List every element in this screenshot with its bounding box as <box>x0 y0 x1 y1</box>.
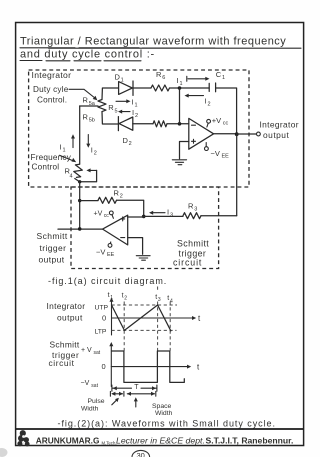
resistor R6 <box>151 85 169 91</box>
wire R6 to C1 <box>170 87 210 89</box>
space width pointer arrow <box>135 400 137 407</box>
svg-text:4: 4 <box>170 298 173 304</box>
svg-text:trigger: trigger <box>40 243 67 253</box>
svg-text:t: t <box>155 294 157 301</box>
svg-text:circuit: circuit <box>49 358 75 368</box>
wire + node to R3 <box>144 215 183 217</box>
title line2 underline <box>20 60 141 62</box>
schmitt trigger dashed box <box>71 187 219 269</box>
period T measure arrows <box>112 385 157 391</box>
frequency control pointer arrow <box>60 155 74 161</box>
wire + input <box>128 216 144 218</box>
t3 dashed vertical <box>157 287 159 351</box>
ground (integrator + input) <box>172 160 186 165</box>
wire resistor to inverting input <box>167 123 189 125</box>
wire main bus (wiper to R4) <box>79 106 81 164</box>
svg-text:1: 1 <box>180 81 183 87</box>
svg-text:cc: cc <box>223 121 229 127</box>
svg-text:output: output <box>263 130 289 140</box>
svg-text:2: 2 <box>124 296 127 302</box>
svg-text:Schmitt: Schmitt <box>37 231 68 241</box>
svg-text:3: 3 <box>170 213 173 219</box>
svg-text:I: I <box>60 142 62 151</box>
svg-text:Triangular / Rectangular wavef: Triangular / Rectangular waveform with f… <box>20 36 286 48</box>
wire R3 to bus <box>201 215 237 217</box>
svg-text:3: 3 <box>194 207 197 213</box>
svg-text:−V: −V <box>211 149 220 158</box>
resistor R2 <box>98 197 116 203</box>
svg-text:2: 2 <box>94 150 97 156</box>
label I2 down-bus arrow <box>87 135 89 145</box>
waveform1 y-axis <box>111 301 113 336</box>
svg-text:Integrator: Integrator <box>32 70 72 80</box>
svg-text:ARUNKUMAR.G: ARUNKUMAR.G <box>36 436 100 446</box>
wire node link vertical <box>179 88 181 124</box>
-VEE terminal U2 <box>109 242 112 244</box>
svg-text:S.T.J.I.T, Ranebennur.: S.T.J.I.T, Ranebennur. <box>206 436 294 446</box>
svg-text:UTP: UTP <box>95 304 109 311</box>
svg-text:D: D <box>115 72 121 81</box>
svg-text:and duty cycle control :-: and duty cycle control :- <box>20 49 155 61</box>
capacitor C1 <box>209 83 215 92</box>
wire D2 to resistor <box>133 123 153 125</box>
wire R2 to + node <box>117 200 144 216</box>
wire main bus down to schmitt output line <box>79 182 81 229</box>
waveform2 y-axis <box>110 345 112 387</box>
space width measure <box>127 391 156 396</box>
integrator output terminal circle <box>257 132 261 136</box>
wire D1 to R6 <box>133 87 151 89</box>
square waveform trace <box>112 351 185 382</box>
svg-text:Schmitt: Schmitt <box>177 238 209 248</box>
svg-text:I: I <box>205 96 207 105</box>
svg-text:−V: −V <box>81 380 90 387</box>
svg-text:-fig.1(a) circuit diagram.: -fig.1(a) circuit diagram. <box>48 276 167 286</box>
svg-text:0: 0 <box>102 362 106 371</box>
svg-text:Width: Width <box>81 406 99 413</box>
duty cycle pointer arrow to R5 wiper <box>69 89 96 98</box>
svg-text:t: t <box>167 295 169 302</box>
svg-text:Pulse: Pulse <box>88 398 105 405</box>
waveform1 t-axis <box>112 317 194 319</box>
svg-text:M.Tech,: M.Tech, <box>102 440 117 445</box>
wire - input to ground <box>128 238 143 255</box>
wire to R2 <box>80 200 98 202</box>
triangle waveform trace <box>112 305 171 331</box>
label I1 down-bus arrow <box>72 138 74 148</box>
svg-text:6: 6 <box>162 75 165 81</box>
node: junction dot at inverting input column <box>178 86 182 90</box>
wire to integrator output terminal <box>237 133 257 135</box>
LTP dashed level <box>112 329 177 331</box>
svg-text:LTP: LTP <box>95 328 107 335</box>
svg-text:sat: sat <box>91 383 98 389</box>
wire output bus down <box>236 134 238 215</box>
resistor (unlabelled, D2 path) <box>153 121 167 127</box>
page number 30 <box>132 450 150 457</box>
svg-text:D: D <box>123 136 129 145</box>
svg-text:+ V: + V <box>81 347 92 354</box>
UTP dashed level <box>112 304 178 306</box>
wire R5 wiper tap <box>80 105 98 107</box>
title line1 underline <box>20 47 301 49</box>
node: dot below R4 <box>78 180 81 183</box>
svg-text:1: 1 <box>110 295 113 301</box>
ground (schmitt - input) <box>136 256 150 261</box>
svg-text:T: T <box>134 384 139 391</box>
svg-text:2: 2 <box>208 101 211 107</box>
potentiometer R4 <box>73 163 84 178</box>
node: dot schmitt output/bus <box>78 227 82 231</box>
svg-text:R: R <box>156 70 162 79</box>
svg-text:5: 5 <box>115 108 118 114</box>
svg-text:C: C <box>216 70 222 79</box>
svg-text:3: 3 <box>158 297 161 303</box>
svg-text:Control.: Control. <box>37 95 67 104</box>
svg-text:I: I <box>91 145 93 154</box>
diode D2 <box>117 117 119 131</box>
op-amp U1 (integrator) <box>189 118 214 149</box>
+Vcc terminal U1 <box>207 123 208 127</box>
svg-text:t: t <box>122 292 124 299</box>
-VEE terminal U1 <box>205 143 207 147</box>
wire pot bottom to D2 <box>102 112 118 124</box>
svg-text:R: R <box>188 202 194 211</box>
svg-text:R: R <box>83 96 89 105</box>
svg-text:R: R <box>114 188 120 197</box>
wire schmitt output <box>58 228 103 230</box>
svg-text:I: I <box>177 76 179 85</box>
svg-text:2: 2 <box>135 113 138 119</box>
label I1 with arrow (below D1) <box>116 100 127 102</box>
svg-text:output: output <box>39 254 65 264</box>
node: output junction dot <box>235 132 239 136</box>
svg-text:Schmitt: Schmitt <box>50 340 80 350</box>
node: dot R2 tap <box>78 199 81 202</box>
corner smudge <box>0 448 8 457</box>
label I2 with arrow (above D2) <box>122 111 131 113</box>
svg-text:sat: sat <box>94 350 101 356</box>
t4 dashed vertical <box>169 302 171 351</box>
svg-text:−V: −V <box>96 247 105 256</box>
wire pot top riser to D1 <box>102 88 118 100</box>
svg-text:Duty cyle: Duty cyle <box>33 85 69 94</box>
wire C1 to output bus <box>216 88 237 134</box>
footer logo <box>17 430 29 446</box>
svg-text:5b: 5b <box>89 118 95 124</box>
svg-text:output: output <box>57 313 83 323</box>
svg-text:0: 0 <box>102 313 106 322</box>
diode D1 <box>119 82 133 95</box>
t2 dashed vertical <box>123 302 125 351</box>
waveform2 t-axis <box>111 366 188 368</box>
svg-text:cc: cc <box>104 213 110 219</box>
svg-text:+V: +V <box>212 116 221 125</box>
svg-text:EE: EE <box>222 154 230 160</box>
svg-text:Integrator: Integrator <box>47 301 86 311</box>
svg-text:1: 1 <box>135 103 138 109</box>
svg-text:30: 30 <box>137 451 145 457</box>
svg-text:4: 4 <box>70 173 73 179</box>
resistor R3 <box>183 213 201 219</box>
label I2 with arrow (below top wire) <box>189 95 204 97</box>
svg-text:t: t <box>108 292 110 299</box>
svg-text:Width: Width <box>155 410 173 417</box>
svg-text:Lecturer in E&CE dept.: Lecturer in E&CE dept. <box>116 436 205 446</box>
svg-text:EE: EE <box>107 252 115 258</box>
integrator dashed box <box>29 70 249 187</box>
svg-text:Space: Space <box>152 403 171 410</box>
svg-text:2: 2 <box>129 141 132 147</box>
svg-text:-fig.(2)(a): Waveforms with Sm: -fig.(2)(a): Waveforms with Small duty c… <box>58 418 276 428</box>
label I3 with arrow <box>153 212 166 214</box>
svg-text:I: I <box>167 208 169 217</box>
op-amp U2 (schmitt, mirrored) <box>103 215 128 245</box>
svg-text:1: 1 <box>121 78 124 84</box>
svg-text:R: R <box>83 112 89 121</box>
+Vcc terminal U2 <box>109 211 113 215</box>
svg-text:circuit: circuit <box>173 258 202 268</box>
node: schmitt + input junction <box>142 215 146 219</box>
node: junction dot inverting input <box>178 122 182 126</box>
wire noninverting input to ground <box>180 142 189 159</box>
pulse width pointer arrow <box>112 400 117 405</box>
svg-text:R: R <box>108 103 114 112</box>
svg-text:I: I <box>132 108 134 117</box>
svg-text:Control: Control <box>32 162 60 171</box>
svg-text:1: 1 <box>222 75 225 81</box>
R4 wiper arrow and link <box>90 169 97 171</box>
potentiometer R5 (zigzag) <box>98 100 106 112</box>
svg-text:+V: +V <box>94 210 103 217</box>
svg-text:Integrator: Integrator <box>260 120 299 130</box>
svg-text:I: I <box>132 98 134 107</box>
svg-text:2: 2 <box>120 193 123 199</box>
pulse width measure <box>110 391 124 396</box>
wire U1 output <box>214 133 237 135</box>
footer divider <box>16 428 304 430</box>
